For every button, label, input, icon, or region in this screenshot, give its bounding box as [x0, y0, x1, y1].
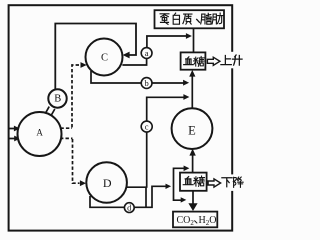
svg-text:b: b [144, 78, 148, 88]
svg-text:C: C [101, 53, 108, 64]
svg-text:D: D [103, 176, 112, 190]
svg-text:c: c [145, 122, 149, 132]
svg-text:A: A [36, 127, 43, 137]
svg-text:E: E [188, 123, 196, 137]
svg-text:a: a [145, 48, 149, 58]
svg-text:B: B [54, 94, 61, 105]
svg-text:d: d [127, 203, 132, 213]
